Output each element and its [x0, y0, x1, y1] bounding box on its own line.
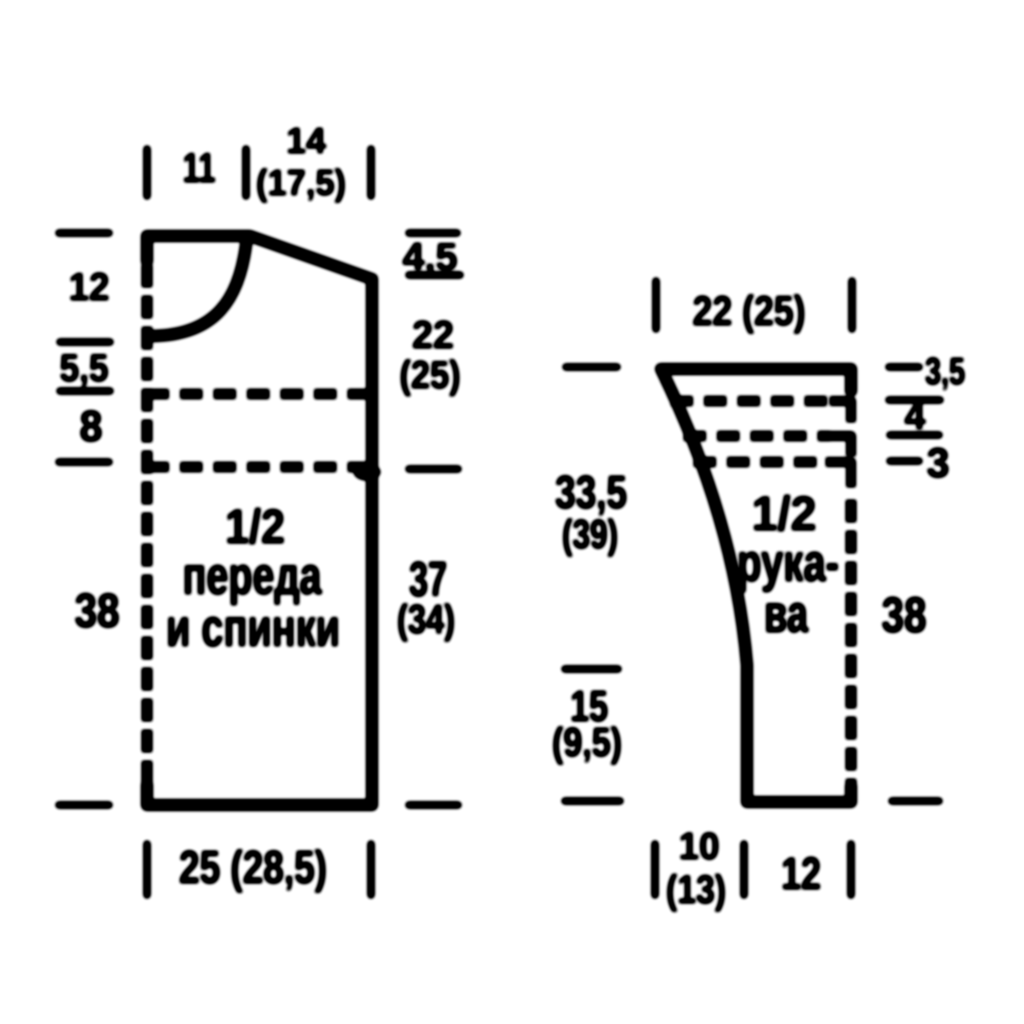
svg-text:12: 12	[781, 848, 821, 899]
svg-text:10: 10	[679, 826, 720, 868]
svg-text:12: 12	[69, 266, 110, 309]
svg-text:5,5: 5,5	[60, 347, 109, 390]
svg-text:3: 3	[927, 439, 950, 486]
svg-text:и спинки: и спинки	[166, 598, 340, 658]
svg-text:(39): (39)	[562, 511, 618, 557]
svg-text:переда: переда	[183, 546, 323, 606]
svg-text:14: 14	[286, 120, 326, 161]
svg-text:ва: ва	[764, 584, 809, 644]
svg-text:(13): (13)	[666, 868, 726, 912]
svg-text:3,5: 3,5	[925, 351, 965, 393]
svg-text:(17,5): (17,5)	[256, 162, 346, 203]
svg-text:38: 38	[882, 587, 927, 643]
svg-text:(25): (25)	[400, 354, 461, 397]
svg-text:22: 22	[412, 314, 454, 357]
svg-text:(9,5): (9,5)	[552, 719, 622, 765]
svg-text:8: 8	[80, 402, 103, 451]
svg-text:38: 38	[75, 585, 120, 638]
svg-text:4,5: 4,5	[403, 236, 458, 279]
svg-text:11: 11	[183, 144, 216, 191]
svg-text:(34): (34)	[397, 596, 455, 642]
svg-text:22 (25): 22 (25)	[693, 287, 806, 334]
svg-text:4: 4	[905, 395, 926, 438]
svg-text:25 (28,5): 25 (28,5)	[179, 841, 327, 893]
